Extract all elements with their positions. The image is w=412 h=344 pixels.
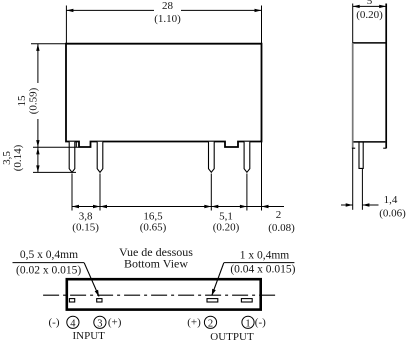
svg-text:0,5 x 0,4mm: 0,5 x 0,4mm	[20, 249, 78, 261]
svg-text:(0.06): (0.06)	[379, 208, 406, 220]
svg-text:(0.20): (0.20)	[213, 222, 240, 234]
svg-text:5: 5	[367, 0, 373, 7]
svg-text:OUTPUT: OUTPUT	[210, 331, 254, 343]
svg-text:(+): (+)	[108, 317, 122, 329]
svg-text:(0.20): (0.20)	[356, 9, 383, 21]
svg-text:3,5: 3,5	[1, 151, 13, 165]
svg-text:(1.10): (1.10)	[154, 13, 181, 25]
svg-text:INPUT: INPUT	[73, 330, 106, 342]
svg-text:(0.15): (0.15)	[72, 222, 99, 234]
svg-text:2: 2	[208, 318, 213, 329]
svg-text:4: 4	[70, 318, 76, 329]
svg-text:3: 3	[97, 318, 102, 329]
svg-text:1 x 0,4mm: 1 x 0,4mm	[240, 250, 290, 262]
svg-text:1,4: 1,4	[384, 194, 398, 206]
svg-text:Bottom View: Bottom View	[124, 257, 188, 271]
svg-text:(0.14): (0.14)	[12, 144, 24, 171]
svg-text:28: 28	[162, 0, 174, 12]
svg-text:15: 15	[16, 95, 28, 107]
svg-text:(-): (-)	[49, 317, 60, 329]
svg-text:2: 2	[276, 209, 282, 221]
svg-text:1: 1	[245, 318, 250, 329]
svg-text:(0.04 x 0.015): (0.04 x 0.015)	[230, 263, 295, 275]
svg-text:(+): (+)	[187, 317, 201, 329]
svg-text:(-): (-)	[255, 317, 266, 329]
svg-text:(0.65): (0.65)	[140, 222, 167, 234]
svg-text:(0.02 x 0.015): (0.02 x 0.015)	[16, 265, 81, 277]
svg-text:(0.08): (0.08)	[268, 222, 295, 234]
svg-text:(0.59): (0.59)	[27, 87, 39, 114]
